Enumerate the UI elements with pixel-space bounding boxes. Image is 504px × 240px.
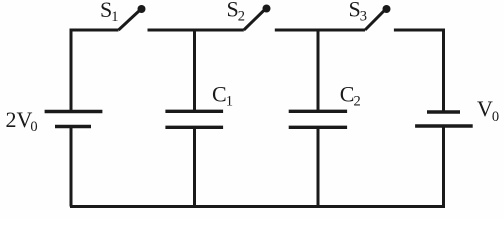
switch S1 contact dot [138, 5, 146, 13]
wire C2 bottom lead [317, 128, 320, 207]
capacitor C2 top plate [289, 110, 347, 113]
battery 2V0 negative plate [55, 125, 91, 128]
svg-text:C2: C2 [340, 82, 361, 110]
wire C1 bottom lead [193, 128, 196, 207]
wire C1 top lead [193, 30, 196, 111]
switch S2 blade [244, 10, 264, 30]
switch S1 blade [119, 11, 140, 31]
capacitor C1 bottom plate [165, 126, 223, 129]
battery V0 positive plate [427, 110, 460, 113]
wire C2 top lead [317, 30, 320, 111]
switch S3 contact dot [383, 5, 391, 13]
wire top rail segment left (corner to S1) [71, 30, 119, 110]
wire right bottom (battery to bottom rail) [442, 128, 445, 207]
svg-text:C1: C1 [212, 82, 233, 110]
wire left bottom (battery to bottom rail) [70, 128, 73, 207]
switch S3 blade [365, 11, 384, 31]
wire top rail segment right (S3 to corner) [394, 30, 444, 111]
battery V0 negative plate [415, 124, 473, 127]
capacitor C1 top plate [165, 110, 223, 113]
wire top rail segment S2 to S3 [275, 29, 365, 32]
battery 2V0 positive plate [45, 110, 103, 113]
switch S2 contact dot [263, 5, 271, 13]
svg-text:S3: S3 [349, 0, 368, 25]
capacitor C2 bottom plate [289, 126, 347, 129]
svg-text:2V0: 2V0 [6, 107, 38, 135]
svg-text:S2: S2 [227, 0, 246, 25]
svg-text:V0: V0 [477, 96, 499, 125]
wire bottom rail [70, 205, 445, 208]
svg-text:S1: S1 [100, 0, 119, 25]
wire top rail segment S1 to S2 [148, 29, 244, 32]
